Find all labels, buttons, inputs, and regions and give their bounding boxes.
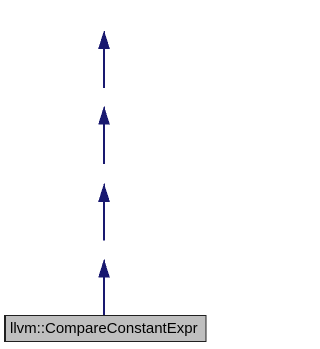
inheritance arrow 4 (from class box, pointing up) xyxy=(98,259,110,316)
inheritance arrow 1 (topmost, pointing up) xyxy=(98,31,110,89)
class node box fill xyxy=(6,316,206,341)
inheritance arrow 3 xyxy=(98,183,110,240)
svg-text:llvm::CompareConstantExpr: llvm::CompareConstantExpr xyxy=(10,320,198,337)
inheritance arrow 2 xyxy=(98,106,110,164)
class node box llvm::CompareConstantExpr (border) xyxy=(4,315,207,342)
